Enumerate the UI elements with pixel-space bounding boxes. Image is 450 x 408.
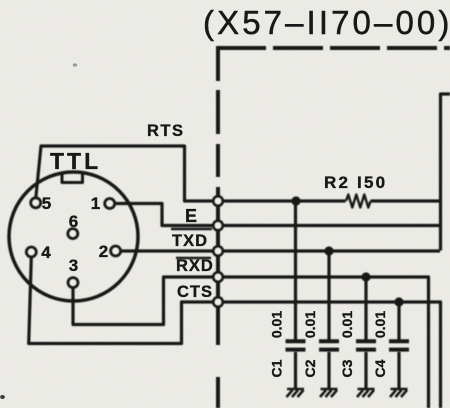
- svg-text:TXD: TXD: [172, 232, 208, 250]
- svg-text:2: 2: [99, 242, 108, 261]
- svg-text:RTS: RTS: [147, 122, 185, 140]
- svg-text:C3: C3: [339, 359, 355, 377]
- svg-text:C2: C2: [302, 359, 318, 377]
- svg-text:0.01: 0.01: [372, 311, 388, 338]
- svg-text:(X57–II70–00): (X57–II70–00): [203, 4, 450, 41]
- svg-text:5: 5: [42, 194, 51, 213]
- svg-text:TTL: TTL: [50, 148, 101, 174]
- svg-text:3: 3: [69, 256, 78, 275]
- svg-text:RXD: RXD: [176, 257, 214, 275]
- svg-text:C4: C4: [372, 359, 388, 377]
- svg-text:4: 4: [41, 243, 51, 262]
- svg-text:E: E: [185, 206, 197, 226]
- svg-text:0.01: 0.01: [339, 311, 355, 338]
- svg-text:0.01: 0.01: [302, 311, 318, 338]
- svg-text:0.01: 0.01: [269, 311, 285, 338]
- svg-text:1: 1: [91, 194, 100, 213]
- svg-text:C1: C1: [269, 359, 285, 377]
- svg-text:R2 I50: R2 I50: [324, 173, 387, 192]
- svg-text:6: 6: [69, 212, 78, 231]
- svg-text:CTS: CTS: [177, 283, 213, 301]
